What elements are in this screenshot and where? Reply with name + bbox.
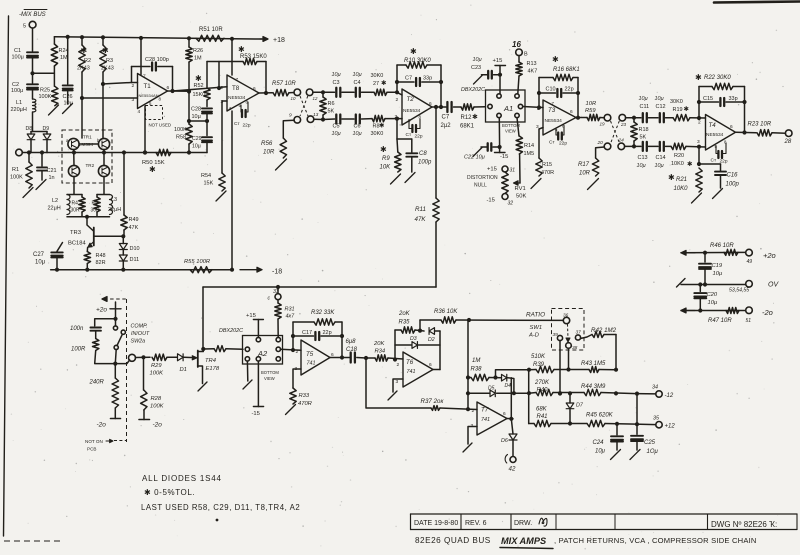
svg-text:10μ: 10μ: [595, 449, 606, 455]
transistor TR3 bar: [93, 228, 95, 246]
title block divider right: [796, 514, 798, 530]
wire R22 row left: [699, 86, 712, 88]
svg-text:4: 4: [229, 106, 232, 112]
not-on-pcb corner dashes: [114, 440, 127, 442]
wire A2 gnd pin: [246, 361, 248, 381]
wire R16 loop right: [577, 78, 579, 118]
wire TR1a-TR2a: [73, 150, 75, 166]
wire T3 pin3 down: [539, 128, 543, 159]
svg-text:Cт: Cт: [234, 121, 240, 127]
terminal 33: [275, 294, 281, 300]
resistor R32: [314, 319, 335, 325]
wire D4 down: [508, 378, 514, 394]
svg-text:5: 5: [23, 24, 26, 30]
svg-text:, PATCH RETURNS, VCA , COMPRES: , PATCH RETURNS, VCA , COMPRESSOR SIDE C…: [554, 536, 757, 545]
terminal 34: [656, 391, 662, 397]
capacitor C12: [660, 113, 664, 122]
wire TR2a down: [73, 177, 75, 194]
svg-text:C7: C7: [442, 115, 450, 121]
svg-text:DBX202C: DBX202C: [219, 328, 243, 334]
wire R44 right: [601, 393, 637, 394]
svg-text:10μ: 10μ: [655, 96, 664, 102]
transistor TR1a symbol: [72, 141, 77, 148]
svg-text:D10: D10: [130, 246, 140, 252]
RV1 wiper arrow: [514, 181, 521, 185]
wire R57 to term10: [289, 92, 294, 94]
supply -20 240R: [111, 418, 121, 420]
resistor R2: [79, 45, 85, 72]
wire R36 up: [419, 320, 421, 331]
svg-text:C21: C21: [47, 168, 57, 174]
capacitor C21: [41, 153, 43, 167]
svg-text:-15: -15: [252, 411, 260, 417]
resistor R39: [529, 369, 536, 371]
capacitor C5: [336, 115, 340, 124]
svg-text:10R: 10R: [263, 149, 275, 156]
ground slash C8: [405, 173, 415, 183]
capacitor C8: [411, 139, 413, 152]
node T6 pin2: [393, 357, 397, 361]
svg-text:R45 620K: R45 620K: [586, 413, 614, 419]
svg-text:10μ: 10μ: [637, 163, 646, 169]
svg-text:C14: C14: [656, 155, 666, 161]
terminal 23: [619, 114, 626, 121]
wire T4 output: [736, 131, 757, 134]
wire TR3 emitter down: [86, 248, 88, 252]
wire T2 output: [432, 106, 446, 108]
resistor R10: [406, 62, 427, 68]
node C15 loop right: [742, 100, 746, 104]
wire T2 in2 link: [397, 92, 402, 95]
resistor R27: [374, 89, 387, 95]
node C1-C2: [30, 71, 34, 75]
svg-text:T1: T1: [144, 83, 152, 90]
svg-text:R56: R56: [261, 140, 273, 147]
svg-text:RATIO: RATIO: [526, 312, 545, 319]
svg-text:82R: 82R: [96, 260, 106, 266]
terminal 37: [575, 335, 580, 340]
svg-text:100K: 100K: [174, 127, 187, 133]
resistor R43: [589, 367, 599, 373]
wire R42 vert down: [615, 335, 617, 370]
svg-text:✱ 0-5%TOL.: ✱ 0-5%TOL.: [144, 488, 195, 497]
wire R45 right: [605, 424, 656, 425]
inductor L3: [110, 195, 113, 215]
switch SW2a bottom contact: [114, 345, 118, 349]
wire term to R29: [136, 356, 151, 358]
svg-text:C19: C19: [712, 263, 723, 269]
ground slash R33: [286, 405, 296, 415]
title block divider 2: [460, 514, 462, 530]
wire T5 pin3 R33: [293, 369, 301, 388]
capacitor C16: [720, 164, 722, 171]
wire R41-R45: [551, 423, 587, 425]
diode D4: [502, 374, 507, 381]
terminal 19: [604, 114, 611, 121]
resistor R13: [518, 56, 520, 62]
svg-text:✱: ✱: [149, 165, 156, 174]
svg-text:T2: T2: [407, 96, 415, 103]
wire R39 row left: [496, 370, 530, 378]
wire R23 to term28: [772, 132, 786, 134]
svg-text:R23 10R: R23 10R: [748, 122, 772, 128]
svg-text:COMP.: COMP.: [131, 324, 148, 330]
svg-text:R2: R2: [84, 58, 91, 64]
svg-text:2: 2: [221, 85, 224, 91]
wire to C5: [323, 118, 335, 121]
SW1 dashed box: [552, 309, 585, 351]
svg-text:R11: R11: [415, 206, 426, 213]
svg-text:39: 39: [553, 332, 559, 338]
svg-text:10μ: 10μ: [655, 163, 664, 169]
ground slash A2: [243, 380, 252, 389]
wire comp branch left: [95, 319, 116, 326]
svg-text:6: 6: [429, 362, 432, 368]
wire R38 row left: [468, 377, 471, 379]
svg-text:53,54,55: 53,54,55: [729, 288, 749, 294]
transistor TR4 bar: [197, 351, 199, 368]
supply -20 R28: [139, 419, 150, 421]
svg-text:✱: ✱: [102, 46, 109, 55]
wire term39 down: [559, 341, 561, 394]
wire R8 to T2 pin3: [385, 118, 397, 120]
capacitor C24: [616, 424, 618, 435]
not-on-pcb vertical dashes: [126, 299, 128, 442]
svg-text:1M: 1M: [60, 55, 68, 61]
svg-text:C12: C12: [656, 104, 666, 110]
capacitor C28 10u: [202, 108, 212, 113]
node R26 bus: [187, 36, 191, 40]
svg-text:100K: 100K: [150, 404, 165, 410]
svg-text:R44 3M9: R44 3M9: [581, 384, 606, 390]
svg-text:15K0: 15K0: [193, 92, 206, 98]
svg-text:47K: 47K: [129, 225, 139, 231]
wire C28b-C29: [206, 121, 208, 136]
resistor R44: [584, 389, 601, 395]
svg-text:C29: C29: [192, 136, 202, 142]
node T3 pin2: [537, 105, 541, 109]
title block divider left: [410, 514, 412, 530]
svg-text:10μ: 10μ: [64, 101, 73, 107]
svg-text:2oK: 2oK: [398, 311, 411, 317]
resistor R36: [441, 317, 456, 323]
svg-text:BC184: BC184: [68, 241, 87, 247]
wire T6 loop right: [439, 331, 441, 370]
switch SW2a top contact: [113, 326, 117, 330]
wire R22 row right: [733, 86, 745, 88]
wire C28 loop left: [131, 67, 133, 83]
wire +18 bus: [54, 37, 262, 39]
resistor R26: [188, 38, 190, 47]
svg-text:NULL: NULL: [474, 183, 487, 189]
svg-text:DRW.: DRW.: [514, 520, 532, 527]
svg-text:R55 100R: R55 100R: [184, 259, 211, 265]
resistor R28: [143, 357, 145, 390]
supply +20 comp: [110, 308, 121, 310]
node R44 vert: [614, 391, 618, 395]
svg-text:IN/OUT: IN/OUT: [131, 331, 150, 337]
capacitor C17: [315, 332, 319, 340]
resistor R31: [277, 300, 279, 303]
terminal 5 circle: [29, 21, 36, 28]
wire 0V row: [681, 284, 746, 286]
node R18 bottom: [632, 144, 636, 148]
capacitor C6: [356, 115, 360, 124]
crossover dashes B: [300, 96, 308, 116]
diode D10: [122, 236, 124, 243]
svg-text:C20: C20: [707, 292, 718, 298]
node T2 pin2: [395, 90, 399, 94]
terminal 51: [746, 307, 753, 314]
resistor R35: [401, 327, 415, 333]
wire R19 to T4: [690, 117, 706, 119]
resistor R51 on bus: [196, 35, 224, 41]
node T5 out: [340, 355, 344, 359]
svg-text:C11: C11: [640, 104, 650, 110]
svg-text:R26: R26: [193, 48, 203, 54]
svg-text:R32 33K: R32 33K: [311, 310, 335, 316]
svg-text:C8: C8: [419, 151, 427, 157]
capacitor C22: [488, 143, 492, 151]
node T8 out: [264, 91, 268, 95]
wire T2 in3 link: [397, 118, 402, 120]
svg-text:13: 13: [313, 112, 319, 118]
node C17 loop left: [291, 334, 295, 338]
node C20 bottom: [698, 308, 702, 312]
svg-text:20K: 20K: [373, 341, 385, 347]
wire C23 left: [482, 74, 488, 76]
title underline MIX AMPS: [500, 548, 553, 549]
svg-text:3: 3: [396, 379, 399, 385]
node D4 D5 row: [512, 391, 516, 395]
wire T3 output: [576, 117, 587, 119]
svg-text:33p: 33p: [729, 96, 738, 102]
wire C14-R20: [666, 145, 672, 147]
svg-text:20: 20: [597, 140, 604, 146]
svg-text:2K43: 2K43: [101, 66, 114, 72]
node C19 bottom: [703, 282, 707, 286]
capacitor C7 2u2: [447, 102, 451, 112]
svg-text:R22 30K0: R22 30K0: [704, 75, 731, 81]
svg-text:D6: D6: [501, 438, 508, 444]
op-amp T6: [403, 352, 433, 387]
svg-text:NOT USED: NOT USED: [149, 123, 172, 128]
svg-text:100R: 100R: [71, 347, 86, 353]
wire T1 pin7 to bus: [140, 38, 142, 75]
SW1 wiper arrowhead: [566, 338, 570, 342]
capacitor C10: [557, 89, 561, 97]
svg-text:10K0: 10K0: [671, 161, 684, 167]
wire term12 out: [313, 91, 323, 93]
svg-text:1Oμ: 1Oμ: [647, 449, 659, 455]
svg-text:RV1: RV1: [515, 186, 526, 192]
resistor R58: [186, 124, 192, 144]
svg-text:D7: D7: [576, 403, 584, 409]
svg-text:NOT ON: NOT ON: [85, 439, 103, 444]
wire R40-R44: [553, 392, 584, 394]
wire R53 loop right: [265, 62, 267, 94]
node T1 pin7 bus: [139, 36, 143, 40]
svg-text:NE5534: NE5534: [403, 108, 421, 114]
svg-text:10K: 10K: [380, 165, 392, 171]
wire C8 branch: [397, 138, 412, 140]
T1 comp pins dashed box: [146, 106, 163, 120]
wire C22 left: [481, 146, 487, 148]
node comp top: [113, 317, 117, 321]
svg-text:C1: C1: [14, 48, 21, 54]
svg-text:6: 6: [253, 86, 256, 92]
svg-text:R37 2oк: R37 2oк: [421, 398, 445, 405]
node R28 top: [141, 355, 145, 359]
svg-text:37: 37: [576, 330, 582, 336]
wire T6 pin3 gnd: [393, 379, 403, 392]
wire C27 to rail: [56, 258, 58, 270]
svg-text:C24: C24: [593, 440, 605, 446]
wire TR1 base link: [79, 143, 98, 145]
transistor TR1a circle: [68, 138, 79, 149]
resistor R57: [273, 90, 289, 96]
resistor R49: [121, 215, 127, 230]
node C17 loop right: [340, 334, 344, 338]
resistor R19: [673, 115, 690, 121]
op-amp T1: [138, 74, 168, 109]
node rail C27: [55, 268, 59, 272]
svg-text:R41: R41: [537, 414, 548, 420]
wire R42 to vert: [604, 334, 616, 336]
svg-text:1M5: 1M5: [524, 151, 535, 157]
supply tick +15 A2: [253, 319, 263, 321]
crossover2 dashes B: [611, 121, 620, 143]
node T2 out loop: [439, 105, 443, 109]
ground slash R1: [23, 188, 33, 198]
wire T7 out down: [511, 419, 513, 434]
svg-text:+2o: +2o: [96, 307, 107, 314]
svg-text:27: 27: [373, 81, 379, 87]
wire A2 -15 pin: [257, 361, 259, 406]
wire R10 loop left: [396, 65, 398, 92]
capacitor C4: [356, 88, 360, 97]
wire node to R58: [189, 120, 207, 122]
svg-text:10μ: 10μ: [639, 96, 648, 102]
not-on-pcb arrow top: [102, 297, 107, 302]
svg-text:SW1: SW1: [530, 325, 543, 331]
wire +20 row: [681, 251, 746, 253]
node T1 pin4 rail: [143, 150, 147, 154]
wire T1out to T8: [173, 87, 228, 91]
op-amp T2: [402, 89, 432, 125]
wire C23 stub: [494, 74, 501, 76]
capacitor C3: [336, 88, 340, 97]
node T1 out: [170, 89, 174, 93]
ground slash R56: [276, 159, 287, 170]
transistor TR1b symbol: [102, 141, 107, 148]
svg-text:D3: D3: [410, 336, 417, 342]
node C7 loop left: [395, 80, 399, 84]
node R38 D4: [493, 375, 497, 379]
svg-text:R28: R28: [151, 396, 162, 402]
wire R14 to wiper: [519, 154, 521, 183]
wire C7ser to R12: [454, 106, 462, 108]
node TR4 drain: [201, 347, 205, 351]
ground slash C26: [63, 104, 73, 114]
title block mid rule: [411, 529, 798, 531]
svg-text:VIEW: VIEW: [505, 129, 516, 134]
svg-text:R43 1M5: R43 1M5: [581, 361, 606, 367]
wire C7 row right: [422, 81, 441, 83]
node R43 R42: [614, 368, 618, 372]
sheet left border: [4, 16, 9, 536]
svg-text:100p: 100p: [418, 160, 432, 166]
terminal rail circle: [16, 149, 23, 156]
wire term20 to R17: [596, 147, 605, 158]
resistor R47: [726, 308, 739, 314]
terminal comp in: [129, 354, 136, 361]
resistor R18: [633, 118, 635, 122]
svg-text:R20: R20: [674, 153, 684, 159]
svg-text:100K: 100K: [39, 94, 52, 100]
svg-text:✱: ✱: [695, 73, 702, 82]
svg-text:2: 2: [132, 83, 135, 89]
node R36 tap: [418, 329, 422, 333]
diode D5: [490, 390, 495, 397]
svg-text:741: 741: [407, 369, 416, 375]
svg-text:R9: R9: [382, 156, 390, 162]
node rail D11: [121, 268, 125, 272]
svg-text:R1: R1: [12, 167, 19, 173]
inductor L2: [67, 195, 70, 215]
svg-text:32: 32: [508, 201, 514, 207]
paper speckle: [264, 87, 265, 88]
svg-text:C27: C27: [33, 252, 45, 258]
svg-text:D9: D9: [43, 126, 50, 132]
wire R16 row right: [573, 77, 578, 79]
node T5 pin2: [291, 348, 295, 352]
svg-text:DISTORTION: DISTORTION: [467, 175, 498, 181]
svg-text:✱: ✱: [379, 122, 385, 130]
node C7 loop right: [439, 80, 443, 84]
capacitor C29: [202, 137, 212, 142]
svg-text:✱: ✱: [684, 105, 690, 113]
transistor TR2b symbol: [102, 168, 107, 175]
resistor R4: [79, 197, 85, 212]
terminal 9: [294, 117, 301, 124]
svg-text:R57 10R: R57 10R: [272, 81, 296, 87]
wire R10 loop right: [440, 65, 442, 107]
svg-text:T6: T6: [406, 359, 414, 366]
svg-text:D5: D5: [488, 386, 495, 392]
wire bias to C16: [699, 163, 721, 165]
svg-text:10μ: 10μ: [192, 144, 201, 150]
svg-text:23: 23: [620, 122, 627, 127]
resistor R55 on rail: [190, 267, 212, 273]
ground slash T6: [388, 391, 397, 400]
wire C28b to node: [206, 114, 208, 121]
svg-text:OV: OV: [768, 282, 779, 289]
arrow +18: [260, 37, 268, 42]
wire C26 down: [67, 91, 69, 104]
wire R59 to term19: [600, 117, 604, 119]
wire T1 pin4 down: [144, 106, 146, 153]
node R2 bus: [80, 35, 84, 39]
op-amp T7: [477, 402, 507, 435]
resistor R48: [84, 252, 90, 264]
wire C6-R8: [362, 118, 373, 120]
svg-text:+15: +15: [246, 313, 256, 319]
svg-text:R6: R6: [328, 101, 335, 107]
not-on-pcb small arrow: [106, 439, 113, 442]
svg-text:38: 38: [572, 345, 578, 351]
svg-text:R4: R4: [72, 201, 79, 207]
